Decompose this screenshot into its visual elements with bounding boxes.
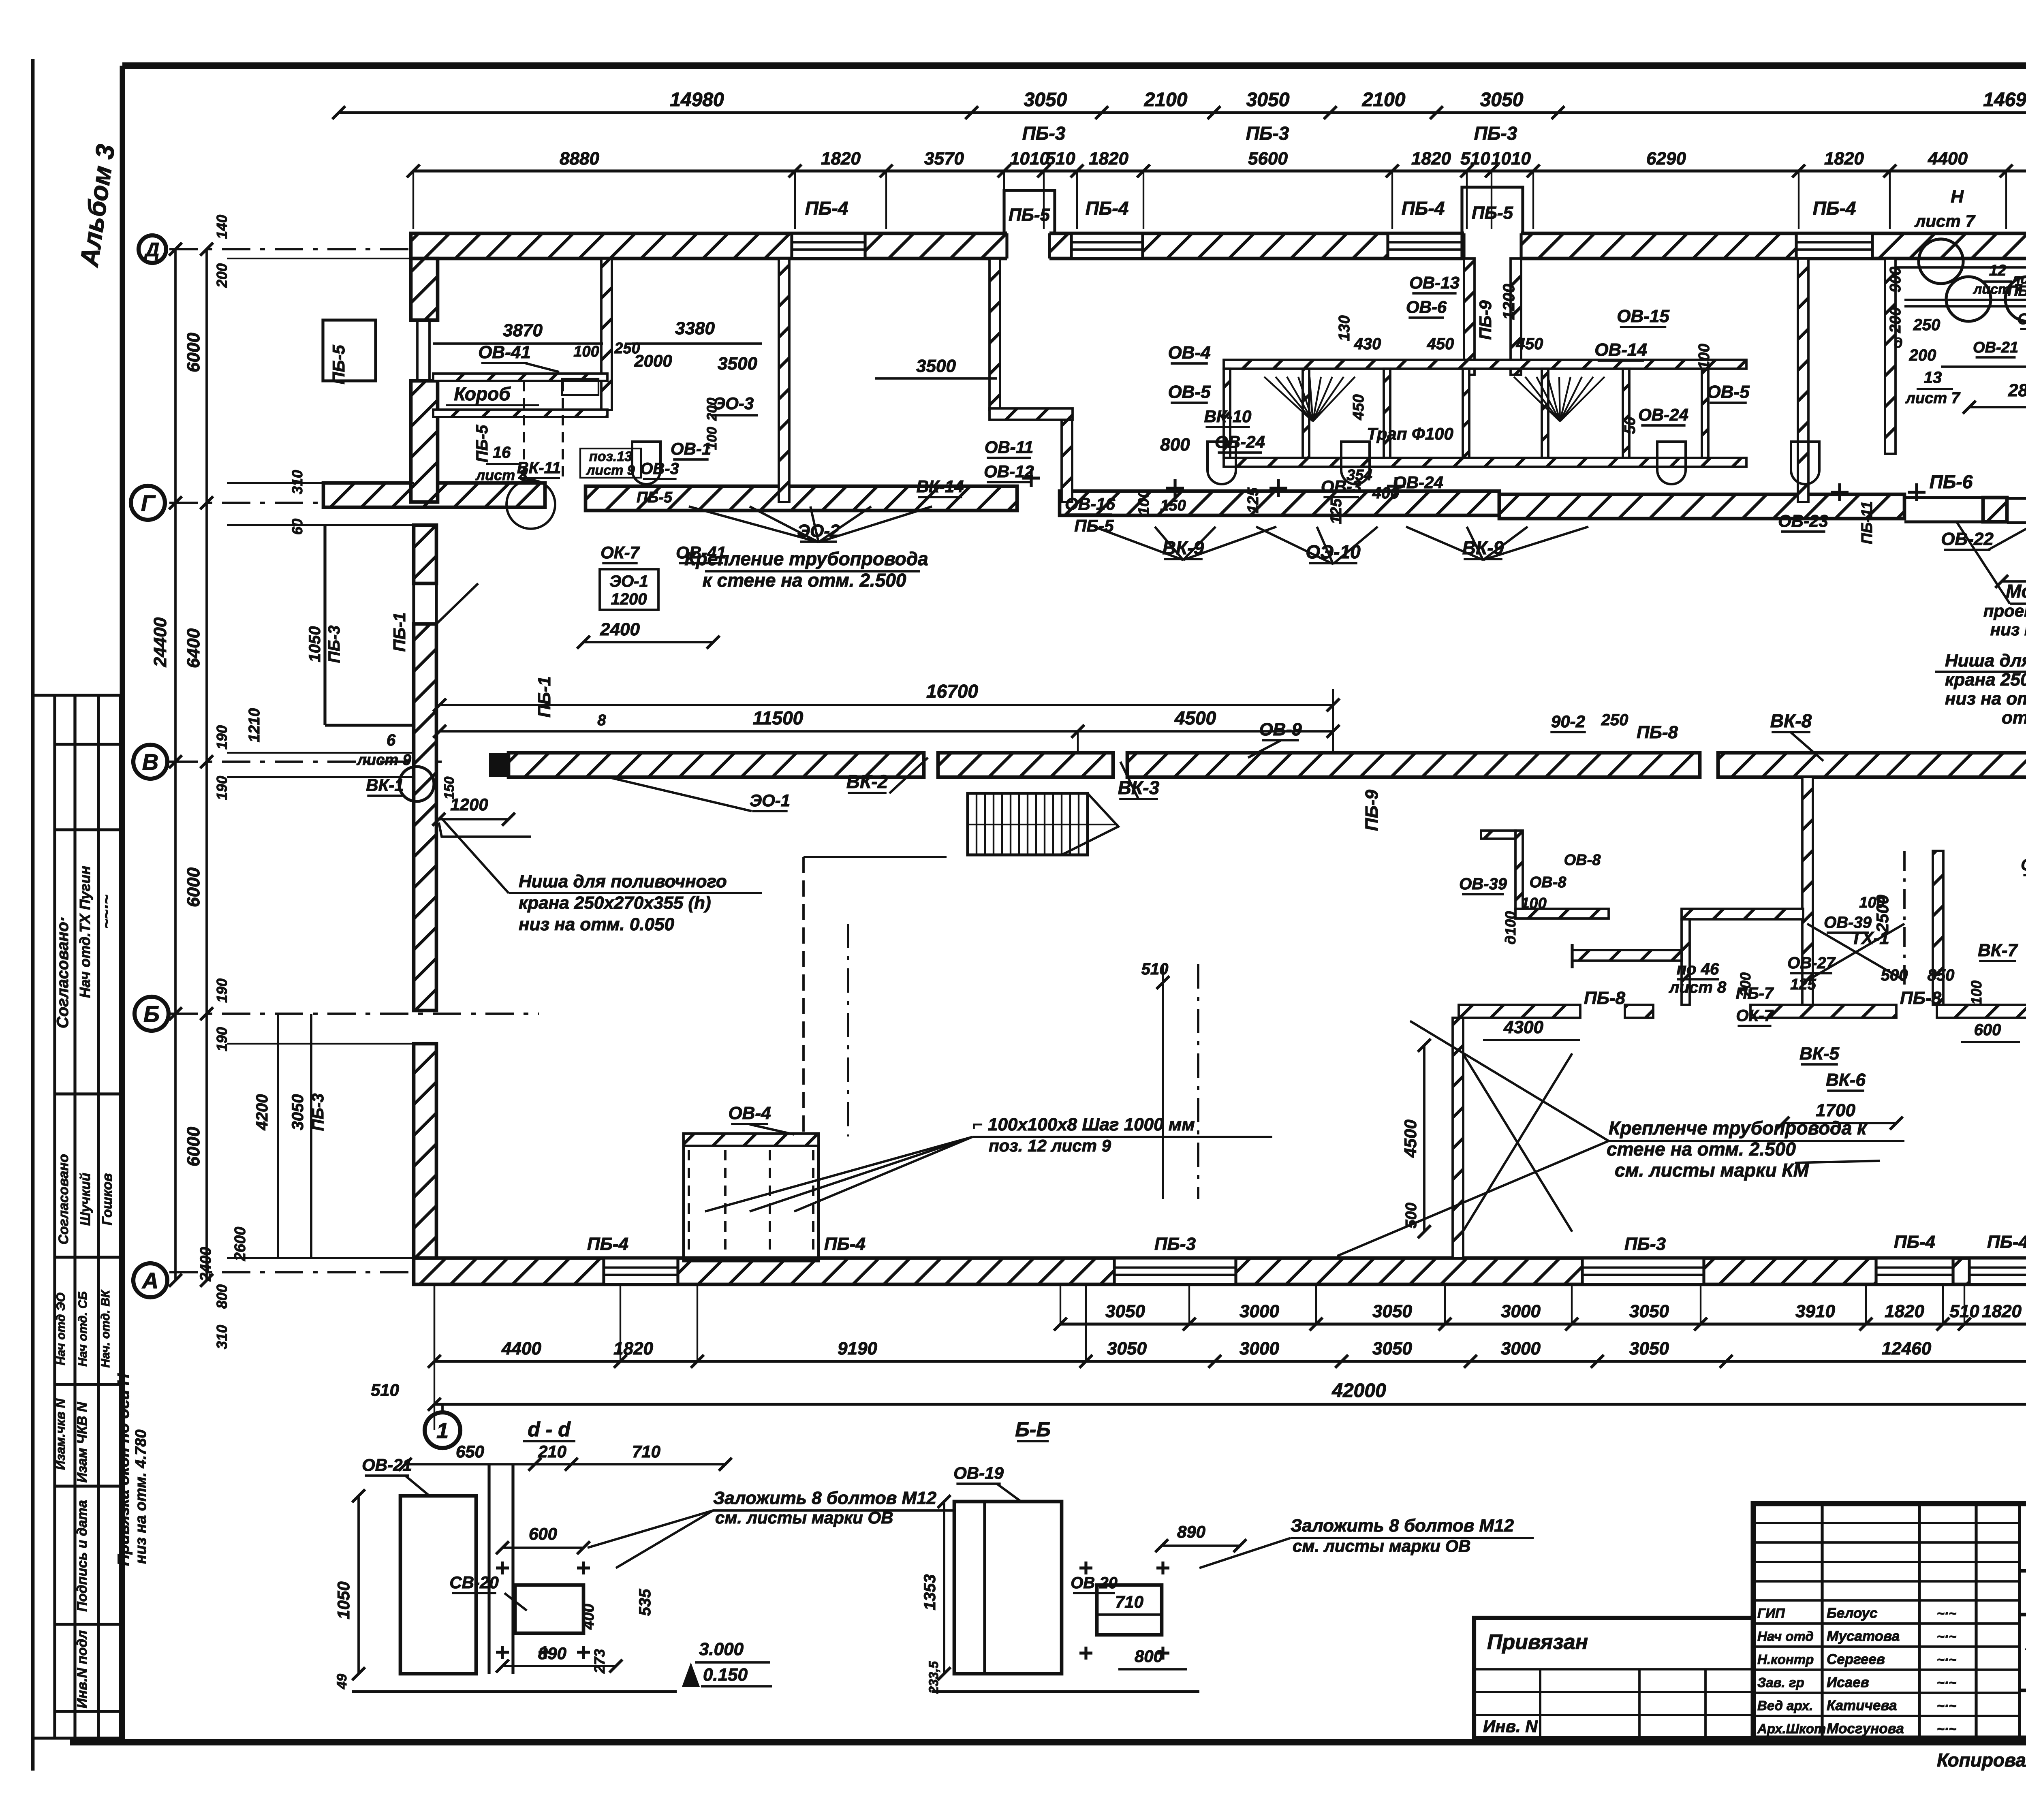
svg-text:1820: 1820 — [613, 1339, 653, 1359]
svg-text:60: 60 — [289, 519, 306, 535]
svg-text:ПБ-8: ПБ-8 — [1900, 988, 1941, 1008]
svg-text:16700: 16700 — [926, 681, 978, 702]
interior partitions Д-Г — [601, 258, 612, 410]
svg-text:3050: 3050 — [1107, 1339, 1147, 1359]
svg-text:3870: 3870 — [503, 320, 543, 340]
привязан box — [1474, 1618, 1753, 1738]
svg-text:Привязка окон по оси Н: Привязка окон по оси Н — [115, 1373, 133, 1566]
svg-text:24400: 24400 — [150, 617, 170, 667]
svg-text:140: 140 — [214, 215, 230, 239]
svg-text:90-2: 90-2 — [1551, 712, 1585, 731]
svg-text:12460: 12460 — [1882, 1339, 1932, 1359]
svg-text:ПБ-3: ПБ-3 — [1154, 1234, 1196, 1254]
svg-text:3050: 3050 — [1246, 89, 1290, 111]
svg-text:1210: 1210 — [246, 708, 263, 743]
svg-text:Нач отд. СБ: Нач отд. СБ — [76, 1291, 90, 1367]
svg-text:6400: 6400 — [184, 628, 203, 668]
svg-text:100: 100 — [1696, 344, 1713, 369]
wall axis А — [414, 1258, 2026, 1284]
svg-text:1820: 1820 — [821, 149, 861, 169]
svg-text:1820: 1820 — [1982, 1301, 2022, 1321]
stair fan upper — [1264, 377, 1313, 421]
svg-text:11500: 11500 — [753, 707, 804, 728]
washing line circles right — [1946, 277, 1991, 321]
svg-text:1050: 1050 — [334, 1581, 353, 1619]
ОВ-4 duct — [684, 1134, 819, 1261]
svg-text:~·~: ~·~ — [1937, 1652, 1956, 1667]
svg-text:Б-Б: Б-Б — [1015, 1418, 1050, 1441]
svg-text:800: 800 — [1135, 1647, 1163, 1666]
svg-text:ПБ-11: ПБ-11 — [2008, 282, 2026, 299]
svg-text:~·~: ~·~ — [1937, 1606, 1956, 1621]
fixtures (U-shapes) along axis Г — [632, 442, 660, 484]
svg-text:6000: 6000 — [184, 333, 203, 372]
svg-text:1200: 1200 — [450, 795, 488, 814]
svg-text:СВ-20: СВ-20 — [449, 1573, 498, 1592]
svg-text:поз. 12 лист 9: поз. 12 лист 9 — [989, 1136, 1111, 1155]
svg-text:Н: Н — [1951, 187, 1964, 207]
svg-text:см. листы марки ОВ: см. листы марки ОВ — [715, 1508, 893, 1527]
svg-text:ЭО-1: ЭО-1 — [750, 791, 790, 810]
svg-text:3500: 3500 — [916, 356, 956, 376]
svg-text:250: 250 — [1913, 316, 1941, 334]
svg-text:ПБ-9: ПБ-9 — [1362, 790, 1382, 831]
svg-text:100: 100 — [573, 343, 599, 360]
svg-text:Исаев: Исаев — [1827, 1675, 1869, 1690]
axis circle Б — [135, 997, 169, 1031]
svg-text:низ на отм. 4.780: низ на отм. 4.780 — [133, 1429, 150, 1564]
svg-text:710: 710 — [632, 1442, 660, 1461]
svg-text:Б: Б — [143, 1001, 160, 1027]
svg-text:ОЭ-10: ОЭ-10 — [1306, 541, 1361, 562]
axis circle В — [133, 745, 167, 779]
svg-text:200: 200 — [1887, 307, 1904, 333]
bottom extension verticals — [1060, 1285, 1061, 1324]
svg-text:14980: 14980 — [670, 89, 724, 111]
svg-text:190: 190 — [214, 776, 230, 800]
svg-text:13: 13 — [1924, 369, 1942, 387]
svg-text:низ на отм. 0.200 от: низ на отм. 0.200 от — [1945, 689, 2026, 709]
svg-text:ОВ-6: ОВ-6 — [1406, 297, 1447, 316]
svg-text:3050: 3050 — [1372, 1301, 1412, 1321]
Короб room walls — [433, 374, 607, 381]
svg-text:Привязан: Привязан — [1487, 1630, 1588, 1654]
bottom dim row A — [1060, 1322, 2026, 1325]
svg-text:ВК-10: ВК-10 — [1204, 407, 1252, 426]
svg-text:ОВ-21: ОВ-21 — [1973, 339, 2018, 356]
svg-text:ПБ-4: ПБ-4 — [1402, 198, 1445, 219]
svg-text:1820: 1820 — [1089, 149, 1128, 169]
svg-text:Монтажный: Монтажный — [2006, 581, 2026, 602]
svg-text:310: 310 — [214, 1325, 230, 1349]
svg-text:лист 9: лист 9 — [586, 463, 635, 478]
svg-text:6290: 6290 — [1646, 149, 1686, 169]
svg-text:3050: 3050 — [1480, 89, 1524, 111]
svg-text:4400: 4400 — [1928, 149, 1968, 169]
svg-text:1820: 1820 — [1824, 149, 1864, 169]
axis dash-dot lines left — [169, 248, 442, 250]
svg-text:Д: Д — [144, 239, 160, 261]
svg-text:~~·~: ~~·~ — [98, 895, 115, 928]
svg-text:ПБ-5: ПБ-5 — [637, 489, 673, 506]
svg-text:ПБ-5: ПБ-5 — [473, 425, 491, 462]
bottom dim row B — [434, 1360, 2026, 1363]
svg-text:В: В — [142, 749, 158, 775]
svg-text:354: 354 — [1346, 467, 1372, 484]
svg-text:ОВ-41: ОВ-41 — [478, 342, 531, 362]
svg-text:2400: 2400 — [197, 1247, 214, 1282]
svg-text:6: 6 — [387, 731, 396, 749]
svg-text:2600: 2600 — [232, 1227, 249, 1262]
svg-text:d - d: d - d — [528, 1418, 571, 1441]
svg-text:ОК-7: ОК-7 — [601, 543, 640, 562]
svg-text:Катичева: Катичева — [1827, 1698, 1897, 1713]
svg-text:2100: 2100 — [1362, 89, 1406, 111]
svg-text:6000: 6000 — [184, 1127, 203, 1166]
svg-text:3000: 3000 — [1240, 1301, 1279, 1321]
svg-text:Арх.Шкот: Арх.Шкот — [1757, 1721, 1826, 1736]
svg-text:49: 49 — [334, 1674, 350, 1690]
svg-text:Ниша для поливочного: Ниша для поливочного — [519, 872, 727, 891]
svg-text:890: 890 — [1177, 1522, 1205, 1541]
svg-text:125: 125 — [1328, 498, 1345, 524]
svg-text:125: 125 — [1245, 487, 1262, 513]
svg-text:2100: 2100 — [1144, 89, 1188, 111]
svg-text:1050: 1050 — [306, 626, 324, 662]
svg-text:Короб: Короб — [454, 383, 511, 404]
svg-text:ОВ-8: ОВ-8 — [1564, 852, 1601, 869]
svg-text:ПБ-8: ПБ-8 — [1584, 988, 1625, 1008]
svg-text:ПБ-4: ПБ-4 — [1987, 1232, 2026, 1252]
svg-text:Инв.N подл: Инв.N подл — [75, 1630, 90, 1709]
svg-text:Согласовано·: Согласовано· — [54, 916, 72, 1028]
svg-text:ОВ-5: ОВ-5 — [1707, 382, 1750, 402]
ПБ-5 niche box — [323, 320, 376, 381]
svg-text:ОВ-24: ОВ-24 — [1393, 473, 1443, 492]
svg-text:3050: 3050 — [1629, 1301, 1669, 1321]
svg-text:ВК-8: ВК-8 — [1770, 710, 1812, 731]
axis circle Д — [139, 235, 166, 263]
svg-text:850: 850 — [1928, 966, 1955, 984]
svg-text:ОВ-20: ОВ-20 — [2017, 311, 2026, 328]
svg-text:450: 450 — [1427, 335, 1454, 353]
svg-text:ОВ-39: ОВ-39 — [1459, 875, 1507, 893]
L platform line — [804, 856, 947, 858]
svg-text:ОВ-41: ОВ-41 — [676, 543, 726, 562]
d-d big rect — [400, 1496, 476, 1674]
svg-text:лист 9: лист 9 — [356, 752, 411, 769]
svg-text:3050: 3050 — [1105, 1301, 1145, 1321]
axis circle Г — [131, 486, 165, 520]
sheet outer left edge line — [31, 59, 35, 1771]
bottom axis circles — [425, 1412, 460, 1448]
svg-text:210: 210 — [538, 1442, 566, 1461]
svg-text:ОВ-24: ОВ-24 — [1638, 405, 1688, 424]
stair lower hall — [968, 793, 1088, 855]
svg-text:3910: 3910 — [1795, 1301, 1835, 1321]
svg-text:200: 200 — [1737, 972, 1754, 997]
svg-text:ПБ-3: ПБ-3 — [1624, 1234, 1666, 1254]
svg-text:ПБ-1: ПБ-1 — [390, 612, 409, 652]
wall axis Г — [323, 483, 545, 507]
svg-text:Нач отд.ТХ Пугин: Нач отд.ТХ Пугин — [77, 866, 93, 998]
svg-text:200: 200 — [214, 263, 230, 288]
svg-text:ПБ-11: ПБ-11 — [1859, 501, 1876, 544]
svg-text:2800: 2800 — [2008, 380, 2026, 400]
svg-text:д: д — [1894, 335, 1902, 351]
svg-text:130: 130 — [1336, 315, 1353, 341]
svg-text:2000: 2000 — [634, 351, 672, 370]
svg-text:Изам ЧКВ N: Изам ЧКВ N — [75, 1401, 90, 1482]
svg-text:100: 100 — [704, 427, 720, 450]
svg-text:ОВ-3: ОВ-3 — [640, 460, 679, 478]
dash-dot verticals — [847, 924, 849, 1136]
svg-text:3500: 3500 — [718, 354, 757, 374]
svg-text:1200: 1200 — [1500, 284, 1518, 320]
svg-text:3050: 3050 — [1024, 89, 1067, 111]
svg-text:ПБ-5: ПБ-5 — [1009, 205, 1050, 225]
wall axis Д — [411, 233, 2026, 258]
svg-text:150: 150 — [1160, 497, 1186, 514]
svg-text:3000: 3000 — [1501, 1339, 1541, 1359]
svg-text:ГИП: ГИП — [1757, 1606, 1785, 1621]
svg-text:ОВ-39: ОВ-39 — [1824, 914, 1872, 931]
svg-text:ОВ 20: ОВ 20 — [1071, 1574, 1118, 1592]
svg-text:~·~: ~·~ — [1937, 1675, 1956, 1690]
svg-text:190: 190 — [214, 978, 230, 1003]
svg-text:250: 250 — [1601, 711, 1628, 729]
svg-text:ОК-7: ОК-7 — [1736, 1007, 1774, 1025]
svg-text:1010: 1010 — [1491, 149, 1531, 169]
cross diagonals room — [1463, 1053, 1572, 1232]
top dimension row 1 — [339, 111, 2026, 114]
svg-text:273: 273 — [591, 1649, 608, 1674]
svg-text:650: 650 — [456, 1442, 484, 1461]
svg-text:Нач отд: Нач отд — [1757, 1629, 1814, 1644]
svg-text:6000: 6000 — [184, 867, 203, 907]
svg-text:190: 190 — [214, 1027, 230, 1051]
svg-text:1820: 1820 — [1411, 149, 1451, 169]
svg-text:16: 16 — [493, 444, 511, 461]
svg-text:200: 200 — [704, 398, 720, 421]
svg-text:8880: 8880 — [560, 149, 599, 169]
svg-text:Инв. N: Инв. N — [1483, 1717, 1538, 1736]
wall axis В — [489, 753, 509, 777]
axis circle А — [133, 1263, 167, 1297]
svg-text:ПБ-4: ПБ-4 — [587, 1234, 628, 1254]
svg-text:1820: 1820 — [1885, 1301, 1924, 1321]
svg-text:510: 510 — [1141, 960, 1169, 978]
svg-text:ОВ-14: ОВ-14 — [1594, 340, 1647, 360]
svg-text:низ на отм. 0.450: низ на отм. 0.450 — [1990, 620, 2026, 639]
svg-text:100: 100 — [1968, 980, 1985, 1005]
svg-text:Г: Г — [141, 490, 156, 516]
svg-text:800: 800 — [214, 1284, 230, 1309]
svg-text:ОВ-4: ОВ-4 — [1168, 343, 1210, 363]
svg-text:Трап Ф100: Трап Ф100 — [1367, 424, 1453, 443]
svg-text:4500: 4500 — [1174, 707, 1216, 728]
svg-text:ПБ-3: ПБ-3 — [1474, 123, 1517, 144]
sheet frame — [120, 66, 125, 1742]
svg-text:900: 900 — [1887, 267, 1904, 292]
svg-text:ПБ-3: ПБ-3 — [1022, 123, 1066, 144]
svg-text:Нач отд ЭО: Нач отд ЭО — [54, 1292, 68, 1365]
toilet block partitions — [1224, 360, 1746, 369]
svg-text:ОВ-5: ОВ-5 — [1168, 382, 1211, 402]
svg-text:ВК-7: ВК-7 — [1978, 940, 2018, 960]
svg-text:низ на отм. 0.050: низ на отм. 0.050 — [519, 914, 674, 934]
svg-text:4200: 4200 — [253, 1094, 271, 1131]
svg-text:Мосгунова: Мосгунова — [1827, 1721, 1904, 1737]
svg-text:ПБ-9: ПБ-9 — [1476, 300, 1495, 340]
svg-text:600: 600 — [529, 1524, 557, 1543]
svg-text:800: 800 — [1160, 435, 1190, 455]
svg-text:42000: 42000 — [1331, 1380, 1386, 1401]
svg-text:510: 510 — [371, 1380, 399, 1399]
svg-text:510: 510 — [1045, 149, 1075, 169]
title block — [1753, 1504, 2026, 1738]
svg-text:ОВ-16: ОВ-16 — [1065, 494, 1115, 513]
svg-text:ПБ-4: ПБ-4 — [824, 1234, 866, 1254]
svg-text:ЭО-1: ЭО-1 — [609, 572, 648, 590]
СВ-20 rect — [515, 1585, 583, 1633]
svg-text:4500: 4500 — [1401, 1119, 1420, 1158]
svg-text:Белоус: Белоус — [1827, 1605, 1877, 1621]
svg-text:ОВ-15: ОВ-15 — [1617, 306, 1669, 326]
svg-text:см. листы марки ОВ: см. листы марки ОВ — [1293, 1536, 1470, 1555]
svg-text:ОВ-13: ОВ-13 — [1409, 273, 1460, 292]
svg-text:3000: 3000 — [1240, 1339, 1279, 1359]
svg-text:190: 190 — [214, 725, 230, 750]
svg-text:Изам.чкв N: Изам.чкв N — [53, 1398, 68, 1470]
svg-text:ВК-11: ВК-11 — [517, 459, 561, 477]
svg-text:ОВ-4: ОВ-4 — [728, 1103, 771, 1123]
svg-text:4300: 4300 — [1503, 1017, 1543, 1037]
corridor wall lower right — [1459, 1005, 1580, 1018]
top dimension row 2 — [413, 169, 2026, 172]
svg-text:лист 7: лист 7 — [1905, 390, 1960, 407]
svg-text:лист 7: лист 7 — [1914, 211, 1975, 231]
svg-text:1200: 1200 — [611, 590, 647, 608]
svg-text:ОВ-21: ОВ-21 — [362, 1455, 412, 1474]
svg-text:ПБ-1: ПБ-1 — [534, 676, 554, 718]
svg-text:5600: 5600 — [1248, 149, 1288, 169]
svg-text:233,5: 233,5 — [926, 1661, 941, 1694]
svg-text:50: 50 — [1622, 417, 1639, 434]
svg-text:~·~: ~·~ — [1937, 1722, 1956, 1736]
svg-text:ВК-14: ВК-14 — [917, 477, 964, 496]
svg-text:2400: 2400 — [600, 619, 640, 639]
svg-text:ВК-5: ВК-5 — [1799, 1044, 1839, 1064]
svg-text:ПБ-5: ПБ-5 — [329, 345, 348, 385]
svg-text:см. листы марки КМ: см. листы марки КМ — [1615, 1160, 1810, 1181]
trap diagonals — [1807, 924, 1904, 980]
svg-text:ОВ-8: ОВ-8 — [1530, 874, 1567, 891]
svg-text:ПБ-4: ПБ-4 — [1086, 198, 1129, 219]
svg-text:500: 500 — [1403, 1203, 1420, 1228]
svg-text:3050: 3050 — [1629, 1339, 1669, 1359]
svg-text:ВК-6: ВК-6 — [1826, 1070, 1866, 1090]
svg-text:3050: 3050 — [1372, 1339, 1412, 1359]
svg-text:100: 100 — [1135, 489, 1152, 515]
svg-text:3.000: 3.000 — [699, 1639, 744, 1659]
svg-text:450: 450 — [1350, 394, 1367, 420]
710 rect — [1097, 1585, 1162, 1635]
svg-text:1: 1 — [436, 1418, 449, 1443]
svg-text:ПБ-4: ПБ-4 — [805, 198, 848, 219]
svg-text:400: 400 — [580, 1604, 597, 1630]
svg-text:ОВ-11: ОВ-11 — [985, 438, 1034, 457]
svg-text:Копировал: Копировал — [1937, 1750, 2026, 1771]
svg-text:430: 430 — [1354, 335, 1381, 353]
left vertical dim chains — [174, 249, 177, 1280]
svg-text:ПБ-4: ПБ-4 — [1894, 1232, 1935, 1252]
svg-text:ПБ-3: ПБ-3 — [1246, 123, 1289, 144]
svg-text:ОВ-23: ОВ-23 — [1778, 511, 1828, 530]
svg-text:Зав. гр: Зав. гр — [1757, 1675, 1804, 1690]
svg-text:по 46: по 46 — [1677, 960, 1719, 978]
Б-Б big rect — [954, 1502, 1062, 1674]
svg-text:12: 12 — [1989, 262, 2006, 279]
svg-text:1010: 1010 — [1010, 149, 1049, 169]
svg-text:~·~: ~·~ — [1937, 1629, 1956, 1644]
svg-text:Сергеев: Сергеев — [1827, 1651, 1885, 1667]
svg-text:535: 535 — [636, 1589, 654, 1616]
svg-text:4400: 4400 — [501, 1339, 541, 1359]
svg-text:~·~: ~·~ — [1937, 1698, 1956, 1713]
svg-text:Подпись и дата: Подпись и дата — [75, 1500, 90, 1612]
svg-text:200: 200 — [1909, 346, 1936, 364]
svg-text:ОВ-19: ОВ-19 — [953, 1463, 1004, 1482]
svg-text:крана 250х270х355 (h): крана 250х270х355 (h) — [519, 893, 711, 913]
svg-text:поз.13: поз.13 — [589, 449, 632, 464]
bottom dim row 42000 — [434, 1403, 2026, 1406]
svg-text:лист 8: лист 8 — [1669, 978, 1727, 996]
svg-text:ПБ-6: ПБ-6 — [1930, 471, 1973, 492]
svg-text:1353: 1353 — [921, 1574, 939, 1611]
svg-text:450: 450 — [1516, 335, 1543, 353]
svg-text:Вед арх.: Вед арх. — [1757, 1698, 1813, 1713]
svg-text:125: 125 — [1790, 976, 1816, 993]
svg-text:ВК-2: ВК-2 — [846, 771, 888, 792]
svg-text:ПБ-8: ПБ-8 — [1637, 722, 1678, 742]
svg-text:Заложить 8 болтов М12: Заложить 8 болтов М12 — [1291, 1516, 1514, 1536]
svg-text:Нач. отд. ВК: Нач. отд. ВК — [99, 1289, 112, 1368]
svg-text:710: 710 — [1115, 1592, 1143, 1611]
plus-cross fixtures under Г wall — [1166, 487, 1184, 489]
svg-text:ПБ-5: ПБ-5 — [1472, 203, 1513, 223]
svg-text:Н.контр: Н.контр — [1757, 1652, 1814, 1667]
svg-text:510: 510 — [1460, 149, 1490, 169]
svg-text:к стене на отм. 2.500: к стене на отм. 2.500 — [703, 570, 906, 591]
svg-text:Согласовано: Согласовано — [56, 1154, 71, 1245]
svg-text:ОВ-24: ОВ-24 — [1215, 432, 1265, 451]
svg-text:14690: 14690 — [1983, 89, 2026, 111]
svg-text:3000: 3000 — [1501, 1301, 1541, 1321]
west wall upper — [411, 258, 438, 320]
svg-text:ОВ-12: ОВ-12 — [984, 462, 1034, 481]
svg-text:ПБ-4: ПБ-4 — [1813, 198, 1856, 219]
svg-text:500: 500 — [1881, 966, 1908, 984]
svg-text:0.150: 0.150 — [703, 1665, 748, 1685]
svg-text:Мусатова: Мусатова — [1827, 1628, 1900, 1644]
svg-text:ВК-3: ВК-3 — [1118, 777, 1160, 798]
svg-text:Шучкий: Шучкий — [78, 1173, 93, 1226]
svg-text:отмостки: отмостки — [2002, 708, 2026, 728]
svg-text:600: 600 — [1974, 1021, 2001, 1039]
svg-text:9190: 9190 — [838, 1339, 877, 1359]
svg-text:3380: 3380 — [675, 318, 715, 338]
